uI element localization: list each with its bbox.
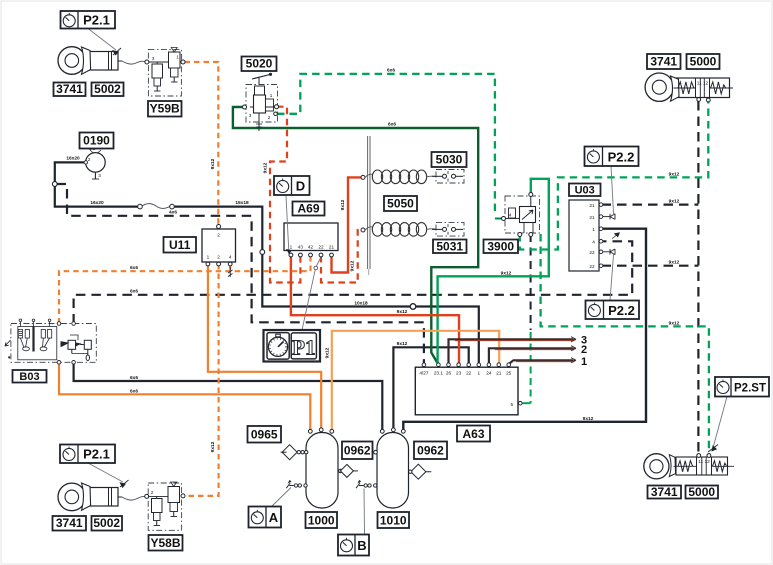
air tank 1000 <box>272 428 358 508</box>
label 0965 <box>248 426 282 443</box>
svg-text:3: 3 <box>249 113 252 118</box>
gauge box P2.2 top <box>585 147 639 167</box>
label 5000 bottom-right <box>686 486 719 499</box>
svg-text:22: 22 <box>318 245 324 250</box>
label 5002 bottom-left <box>92 516 123 531</box>
svg-text:9x12: 9x12 <box>397 341 408 347</box>
wire green dashed 6x6 from 5020 to 3900 inlet <box>277 74 502 219</box>
brake chamber top-left (3741/5002) <box>58 47 122 75</box>
svg-text:5000: 5000 <box>690 55 717 69</box>
svg-text:9x12: 9x12 <box>210 158 216 169</box>
leader tank 1010 to gauge B <box>363 489 366 535</box>
test coupling on U03 pin 21b <box>603 214 615 220</box>
svg-text:23: 23 <box>456 371 462 376</box>
junction node on 0190 drop <box>52 182 57 187</box>
svg-text:6x6: 6x6 <box>388 122 396 128</box>
gauge box P2.1 top <box>61 11 116 29</box>
brake chamber bottom-left (3741/5002) <box>58 483 122 511</box>
label 1000 <box>306 512 338 528</box>
label B03 <box>13 370 47 383</box>
svg-text:P2.2: P2.2 <box>608 303 635 318</box>
component U03 trailer control module <box>569 200 620 271</box>
svg-text:23.1: 23.1 <box>434 371 444 376</box>
svg-text:0965: 0965 <box>251 428 278 442</box>
svg-text:5050: 5050 <box>387 197 414 211</box>
component 0190 pressure switch <box>84 146 105 179</box>
Y58B solenoid valve right <box>168 487 180 503</box>
svg-text:9x12: 9x12 <box>350 260 356 271</box>
svg-text:9x12: 9x12 <box>263 162 269 173</box>
spring brake chamber top-right (3741/5000) <box>645 73 733 102</box>
leader tank 1000 to gauge A <box>272 488 292 507</box>
label Y58B <box>149 535 183 551</box>
svg-text:0962: 0962 <box>344 444 371 458</box>
svg-text:15x18: 15x18 <box>235 200 249 206</box>
Y59B solenoid valve right <box>169 52 181 68</box>
svg-text:6x6: 6x6 <box>130 289 138 295</box>
svg-text:4x6: 4x6 <box>169 210 177 216</box>
svg-text:1000: 1000 <box>308 513 335 527</box>
svg-text:9x12: 9x12 <box>325 347 331 358</box>
svg-text:11 12: 11 12 <box>697 81 709 86</box>
svg-text:9x12: 9x12 <box>397 309 408 315</box>
svg-text:2: 2 <box>217 233 220 238</box>
valve 3900 trailer release valve <box>502 193 540 237</box>
connector 5031 <box>432 223 464 237</box>
leader from gauge D to A69 pin 1 <box>286 196 292 255</box>
svg-text:Y58B: Y58B <box>150 536 180 550</box>
svg-text:43: 43 <box>298 245 304 250</box>
valve Y58B <box>145 482 185 530</box>
gauge box P1 (double frame) <box>264 330 321 362</box>
label Y59B <box>148 101 182 117</box>
leader from A69 pin 22 to gauge P1 <box>302 258 321 330</box>
label 3741 top-right <box>647 54 681 69</box>
label U03 <box>569 184 601 197</box>
5020 lever <box>252 75 270 80</box>
wire black dashed: top spring brake port 11 to U03 pin 21 and down to bottom spring brake <box>602 101 699 454</box>
wire 4x6 dashed from 0190 junction to A63 pin 4/27 <box>57 184 424 363</box>
wire orange dashed U11 pin2 to Y58B <box>185 264 219 496</box>
svg-text:21: 21 <box>496 371 502 376</box>
svg-text:9x12: 9x12 <box>501 271 512 277</box>
leader P2.2 top to U03 pin 21b <box>611 166 614 215</box>
label 0962 right <box>414 442 447 460</box>
svg-text:A63: A63 <box>462 427 484 441</box>
wire black 6x6 solid B03 to tank 1010 left port <box>74 363 383 431</box>
wire black dashed from 3900 bottom port down to A63 pin 5 <box>530 234 532 330</box>
svg-text:9x12: 9x12 <box>669 321 680 327</box>
tank 1000 drain valve <box>286 480 307 488</box>
svg-text:P2.1: P2.1 <box>83 13 110 28</box>
gauge box P2.2 bottom <box>586 301 640 320</box>
tank 1000 safety valve diamond <box>281 445 308 460</box>
svg-text:1: 1 <box>207 255 210 260</box>
junction node on 10x18 run <box>410 304 416 310</box>
arrow test point of P2.1 top <box>88 29 121 56</box>
svg-text:26: 26 <box>446 371 452 376</box>
svg-text:B03: B03 <box>19 371 39 383</box>
gauge box A <box>249 507 282 528</box>
svg-text:4: 4 <box>509 213 512 218</box>
wire orange solid tank 1000 port 3 to A63 pin 21 <box>332 331 499 430</box>
wire orange solid 6x6 B03 to tank 1000 port 1 <box>59 363 310 431</box>
svg-text:9x12: 9x12 <box>669 260 680 266</box>
component A69 control box <box>284 223 338 257</box>
label 3900 <box>484 240 519 254</box>
wire green solid 6x6 from 5020 to A63 pin 23.1 (dark green) <box>233 107 478 363</box>
svg-text:22: 22 <box>589 264 595 269</box>
wire red dashed 5020 to A69 pin43 <box>270 107 300 283</box>
label 5030 <box>432 152 467 167</box>
svg-text:6x6: 6x6 <box>387 68 395 74</box>
label A69 <box>293 202 325 216</box>
svg-text:6x6: 6x6 <box>130 375 138 381</box>
svg-text:A: A <box>269 510 279 525</box>
label 5002 top-left <box>92 83 124 97</box>
svg-text:B: B <box>357 538 366 553</box>
label A63 <box>457 426 490 442</box>
svg-text:1010: 1010 <box>380 513 407 527</box>
B03 exhaust arrow <box>5 340 11 346</box>
svg-text:Y59B: Y59B <box>150 102 180 116</box>
svg-text:3: 3 <box>98 173 101 178</box>
arrow test point at U03 pin 4 <box>612 232 620 238</box>
coil hose 5050 bottom <box>361 223 436 237</box>
svg-text:3741: 3741 <box>651 485 678 499</box>
wire red dashed A69 pin22 to bottom coil 5050 <box>321 230 362 283</box>
gauge box D <box>274 176 310 195</box>
svg-text:1: 1 <box>477 371 480 376</box>
wire 6x6 dashed B03 to U03 pin 4 <box>74 241 633 323</box>
svg-text:6x6: 6x6 <box>130 265 138 271</box>
svg-text:0190: 0190 <box>83 134 110 148</box>
junction node on 15x18 vertical <box>260 250 265 255</box>
svg-text:16x20: 16x20 <box>66 156 80 162</box>
B03 main double valve <box>61 335 91 361</box>
svg-text:25: 25 <box>506 371 512 376</box>
svg-text:U11: U11 <box>169 238 191 252</box>
svg-text:22: 22 <box>466 371 472 376</box>
valve block B03 foot brake module <box>5 319 96 364</box>
svg-text:2: 2 <box>268 115 271 120</box>
svg-text:1: 1 <box>270 93 273 98</box>
wire black 9x12 tank1010 to A63 pin 22 <box>393 347 468 430</box>
leader P2.ST to bottom spring brake port 12 <box>708 397 727 453</box>
test tap symbol below U11 pin 4 <box>228 267 233 277</box>
gauge box B <box>338 535 369 556</box>
gauge box P2.1 bottom <box>60 445 115 464</box>
wire 3 from A63 pin 26 <box>449 337 577 363</box>
svg-text:P1: P1 <box>292 336 315 360</box>
svg-text:5030: 5030 <box>436 153 463 167</box>
svg-text:6x6: 6x6 <box>130 388 138 394</box>
label 1010 <box>378 512 410 528</box>
B03 cartridges <box>18 319 57 360</box>
label 0190 <box>80 133 114 149</box>
svg-text:P2.2: P2.2 <box>608 150 635 165</box>
label 0962 left <box>342 442 373 460</box>
tank 1000 right-side safety valve diamond <box>339 464 358 477</box>
component A63 electronic unit <box>415 363 522 415</box>
svg-text:4: 4 <box>229 255 232 260</box>
svg-text:1: 1 <box>290 245 293 250</box>
label 3741 bottom-right <box>648 486 682 499</box>
svg-text:2: 2 <box>88 157 91 162</box>
wire green dashed 3900 to bottom spring brake port 12 <box>541 234 709 454</box>
svg-text:5000: 5000 <box>688 485 715 499</box>
leader P2.2 bottom to U03 pin 22a <box>610 254 614 301</box>
label 3741 bottom-left <box>53 516 87 531</box>
test coupling on U03 pin 22a <box>603 249 615 255</box>
svg-text:9x12: 9x12 <box>669 199 680 205</box>
label 5020 <box>242 57 277 72</box>
label 3741 top-left <box>54 83 86 97</box>
svg-text:21: 21 <box>589 203 595 208</box>
svg-text:16x20: 16x20 <box>90 200 104 206</box>
svg-text:1: 1 <box>581 356 587 368</box>
svg-text:3741: 3741 <box>56 82 83 96</box>
svg-text:P2.ST: P2.ST <box>734 383 766 395</box>
wire orange dashed Y59B to U11 pin 2 top <box>185 62 219 226</box>
wire red solid A69 pin1 to A63 pin 23 <box>291 256 459 363</box>
svg-text:5002: 5002 <box>93 516 120 530</box>
wire red solid A69 pin21 to top coil 5050 <box>332 177 363 272</box>
svg-text:21: 21 <box>329 245 335 250</box>
label U11 <box>164 237 197 253</box>
5020 body <box>255 86 265 95</box>
svg-text:9x12: 9x12 <box>583 416 594 422</box>
hose from top-left chamber to Y59B <box>122 61 146 64</box>
component U11 relay box <box>202 225 236 266</box>
svg-text:9x12: 9x12 <box>669 172 680 178</box>
svg-text:1: 1 <box>176 55 179 60</box>
svg-text:5002: 5002 <box>94 82 121 96</box>
svg-text:2: 2 <box>151 490 154 495</box>
wire green solid from 3900 top to A63 pin 23.1 (medium green) <box>438 179 549 363</box>
air tank 1010 <box>356 428 431 534</box>
coil hose 5050 top <box>361 170 436 184</box>
labels 3 2 1 of output wires <box>581 335 587 369</box>
svg-text:4/27: 4/27 <box>419 371 429 376</box>
tank 1010 check valve circle <box>374 450 378 454</box>
tank 1010 drain valve <box>356 480 377 488</box>
svg-text:3741: 3741 <box>650 55 677 69</box>
tank 1010 safety valve diamond <box>409 464 432 479</box>
svg-text:9x12: 9x12 <box>210 441 216 452</box>
label 5050 <box>384 196 417 211</box>
label 5000 top-right <box>687 54 720 69</box>
Y58B pilot valve left <box>152 499 163 513</box>
chassis wall bar <box>368 136 370 275</box>
spring brake chamber bottom-right (3741/5000) <box>644 454 734 479</box>
svg-text:42: 42 <box>308 245 314 250</box>
svg-text:1: 1 <box>592 227 595 232</box>
svg-text:2: 2 <box>217 255 220 260</box>
hose bottom chamber to Y58B <box>122 496 146 500</box>
arrow test point of P2.1 bottom <box>88 463 129 488</box>
svg-text:10x18: 10x18 <box>354 301 368 307</box>
svg-text:5: 5 <box>510 402 513 407</box>
wire 1 from A63 pin 25 <box>509 358 576 364</box>
wire black solid U03 pin1 to tank 1010 <box>403 229 646 430</box>
svg-text:P2.1: P2.1 <box>83 447 110 462</box>
label 5031 <box>433 240 467 254</box>
wire 16x20/15x18/10x18 supply line from 0190 to A63 pin 1 <box>55 162 479 363</box>
valve 5020 four-circuit protection <box>243 73 279 131</box>
svg-text:A69: A69 <box>297 201 319 215</box>
svg-text:D: D <box>296 179 305 194</box>
svg-text:9x12: 9x12 <box>340 199 346 210</box>
svg-text:2: 2 <box>581 344 587 356</box>
svg-text:3900: 3900 <box>487 239 514 253</box>
wire 2 from A63 pin 24 <box>489 346 576 363</box>
wire orange dashed 6x6 B03 to A69 pin 42 with tap to U11 pin 4 <box>59 256 311 324</box>
svg-text:U03: U03 <box>575 184 595 196</box>
wire orange solid U11 pin1 to tank 1000 port 2 <box>208 264 321 430</box>
svg-text:3741: 3741 <box>56 516 83 530</box>
svg-text:21: 21 <box>589 215 595 220</box>
hose break symbol on 15x18 line <box>138 204 175 209</box>
svg-text:22: 22 <box>589 250 595 255</box>
svg-text:0962: 0962 <box>417 444 444 458</box>
svg-text:5031: 5031 <box>436 239 463 253</box>
svg-text:4: 4 <box>592 240 595 245</box>
Y59B pilot valve left <box>152 64 163 78</box>
svg-text:5020: 5020 <box>246 57 273 71</box>
wire green dashed 3900 to top spring brake port 12 <box>520 102 709 250</box>
svg-text:11 12: 11 12 <box>698 459 710 464</box>
gauge box P2.ST <box>715 377 769 397</box>
connector 5030 <box>432 170 464 184</box>
svg-text:24: 24 <box>486 371 492 376</box>
valve Y59B <box>145 48 185 97</box>
svg-text:3: 3 <box>152 56 155 61</box>
